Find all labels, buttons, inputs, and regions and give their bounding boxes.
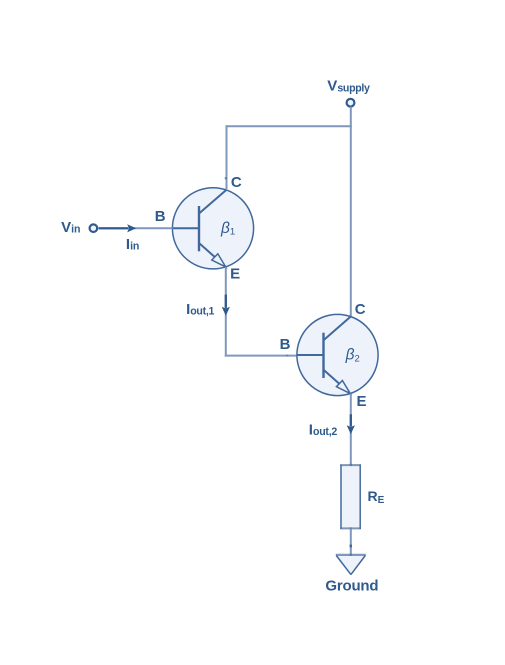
transistor Q2 base bar	[322, 333, 324, 378]
current arrow Iout1	[225, 295, 227, 308]
transistor Q2 collector stroke	[324, 316, 351, 340]
transistor Q1 base bar	[198, 206, 200, 251]
current arrow Iout2	[350, 414, 352, 426]
wire to Q2 base	[225, 355, 297, 357]
svg-text:B: B	[155, 208, 166, 225]
terminal Vin	[90, 224, 98, 232]
junction nub resistor top	[350, 464, 352, 466]
ground top edge	[336, 554, 366, 556]
wire Q1 collector vertical	[226, 125, 228, 189]
wire top horizontal	[226, 125, 352, 127]
wire Vsupply vertical	[350, 107, 352, 316]
resistor RE right edge	[359, 465, 361, 529]
transistor Q2 body	[297, 314, 378, 395]
junction nub resistor bottom	[350, 527, 352, 529]
transistor Q1 emitter arrowhead	[212, 254, 226, 267]
wire Vin to base	[99, 227, 173, 229]
transistor Q1 base lead	[172, 227, 198, 229]
resistor RE body	[340, 464, 361, 529]
transistor Q2 emitter arrowhead	[336, 381, 350, 394]
junction nub ground top	[350, 554, 352, 556]
ground right side	[351, 556, 365, 575]
wire Q2 emitter down	[350, 394, 352, 465]
svg-text:C: C	[231, 174, 242, 191]
ground symbol	[336, 554, 366, 575]
current arrow Iin	[99, 227, 128, 229]
transistor Q1 body	[172, 188, 253, 269]
resistor RE left edge	[340, 465, 342, 529]
wire Q1 emitter down	[225, 267, 227, 357]
transistor Q1 collector stroke	[199, 190, 227, 214]
junction tick	[350, 545, 352, 548]
junction tick collector wire	[225, 177, 227, 179]
wire resistor to ground	[350, 529, 352, 555]
resistor RE top edge	[340, 464, 361, 466]
transistor Q2 base lead	[297, 354, 323, 356]
junction tick base wire Q2	[286, 355, 288, 357]
ground left side	[336, 556, 351, 575]
svg-text:B: B	[280, 336, 291, 353]
svg-text:E: E	[357, 393, 367, 410]
transistor Q1 emitter stroke	[199, 243, 215, 257]
terminal Vsupply	[347, 99, 355, 107]
transistor Q2 emitter stroke	[324, 370, 340, 384]
svg-text:C: C	[355, 301, 366, 318]
resistor RE bottom edge	[340, 527, 361, 529]
svg-text:Ground: Ground	[325, 578, 378, 595]
svg-text:E: E	[230, 266, 240, 283]
